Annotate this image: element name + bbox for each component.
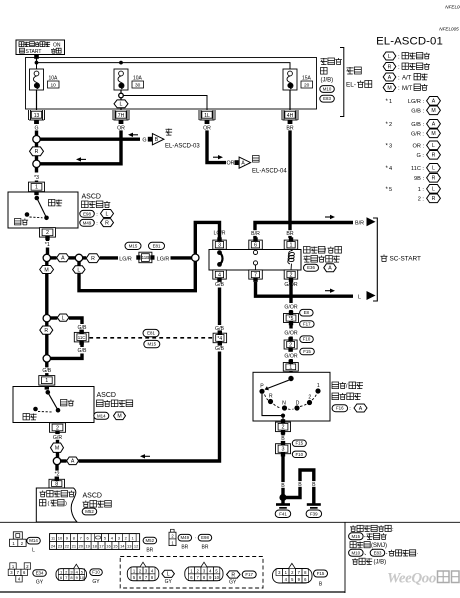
- svg-text:ON: ON: [53, 43, 61, 49]
- svg-text:EL-ASCD-01: EL-ASCD-01: [376, 35, 443, 47]
- connector ref F15 oval at connector 3: [292, 440, 306, 446]
- connector pin 6 of relay: [249, 237, 262, 249]
- svg-text:15: 15: [113, 544, 118, 549]
- svg-text:R: R: [432, 176, 436, 182]
- svg-text:G/B: G/B: [42, 368, 51, 374]
- svg-text:L: L: [62, 315, 65, 321]
- fuse box J/B outline: [26, 58, 317, 110]
- ground F39: [306, 503, 322, 517]
- connector face F15 9pin: [273, 563, 313, 583]
- svg-text:·: ·: [417, 551, 419, 557]
- svg-text:L: L: [120, 102, 123, 108]
- svg-text:13: 13: [34, 113, 40, 119]
- transistor brake switch contact depressed: [25, 212, 43, 218]
- svg-text:L: L: [358, 294, 361, 300]
- connector pin 1 of relay: [284, 237, 298, 249]
- connector ref M15 oval: [125, 242, 141, 249]
- svg-text:(J/B): (J/B): [321, 78, 334, 84]
- connector ref F17 oval bottom: [242, 571, 256, 578]
- svg-text:G :: G :: [417, 153, 425, 159]
- svg-text:2: 2: [56, 425, 59, 431]
- svg-text:A: A: [328, 266, 332, 272]
- label B/R and arrow to SC-START: [355, 217, 376, 226]
- svg-text:L: L: [254, 282, 257, 288]
- svg-text:EL-ASCD-03: EL-ASCD-03: [165, 144, 200, 150]
- svg-text:11B: 11B: [142, 255, 150, 260]
- svg-text:3: 3: [282, 447, 285, 453]
- wire G/OR segment 2: [289, 349, 292, 352]
- svg-text:ASCD: ASCD: [97, 392, 116, 399]
- svg-text:E81: E81: [147, 331, 155, 336]
- label G/B below connector 11C: [78, 348, 87, 354]
- wire G to first junction: [35, 131, 38, 136]
- connector face R-variant 10pin: [185, 562, 223, 581]
- label park/neutral position relay E36 A: [304, 247, 342, 272]
- label L and arrow to SC-START: [358, 291, 376, 300]
- legend *2 wire colors: [386, 120, 441, 138]
- wire fuse box internal bus: [35, 61, 290, 69]
- wire L branch to SC-START: [256, 282, 354, 296]
- svg-text:A: A: [359, 406, 363, 412]
- svg-text:E83: E83: [374, 550, 382, 555]
- label G/OR below relay pin 2: [284, 282, 298, 288]
- wire OR label below connector 1L: [203, 125, 211, 132]
- svg-text:E8: E8: [304, 310, 310, 315]
- wire LG/R to junction node: [171, 256, 192, 259]
- svg-text:NFEL005: NFEL005: [445, 5, 460, 10]
- svg-text:LG/R: LG/R: [157, 256, 170, 262]
- fuse 15A #20: [283, 69, 313, 90]
- connector face L-variant 8pin: [127, 562, 159, 581]
- svg-text:L: L: [167, 572, 170, 578]
- connector 3 F15/F10: [276, 441, 291, 457]
- svg-text:1: 1: [389, 99, 392, 105]
- svg-text:G/B: G/B: [215, 282, 224, 288]
- svg-text:G/B :: G/B :: [411, 122, 424, 128]
- hexagon L below fuse 30: [114, 98, 128, 110]
- wire junction to brake switch pin 1: [35, 168, 38, 184]
- svg-text:2: 2: [282, 425, 285, 431]
- svg-text:2: 2: [46, 230, 49, 236]
- svg-text:BR: BR: [202, 544, 209, 550]
- connector 13 on J/B: [29, 110, 45, 124]
- svg-text:G/OR: G/OR: [284, 304, 298, 310]
- node position 2: [307, 395, 312, 405]
- svg-text:1: 1: [289, 365, 292, 371]
- svg-text:M14: M14: [29, 538, 38, 543]
- svg-text:OR :: OR :: [413, 144, 425, 150]
- svg-text:BR: BR: [181, 544, 188, 550]
- svg-text:M: M: [117, 414, 121, 420]
- connector ref M49 oval bottom: [178, 534, 192, 550]
- svg-text:GY: GY: [165, 579, 173, 585]
- label park/neutral position switch F16 A: [332, 382, 367, 412]
- node LG/R junction circle: [192, 254, 199, 261]
- label G/OR above connector 2: [284, 331, 298, 337]
- connector pin 2 ASCD brake switch: [40, 228, 56, 240]
- connector face M49/E98: [169, 529, 176, 545]
- svg-text:21: 21: [72, 544, 77, 549]
- wire bypass back to main: [51, 342, 83, 358]
- connector pin 1 park/neutral switch: [283, 359, 298, 378]
- fuse 10A #30: [114, 69, 144, 90]
- node ground junction dot: [279, 494, 286, 501]
- svg-text:R: R: [388, 64, 392, 70]
- svg-text:EL-: EL-: [346, 82, 356, 89]
- hexagon R between G junctions: [30, 143, 44, 160]
- node junction circle below bypass: [43, 355, 50, 362]
- bracket to SC-START: [373, 218, 421, 301]
- svg-text:M: M: [44, 267, 48, 273]
- connector ref E34 oval bottom: [33, 570, 47, 586]
- svg-text:E81: E81: [153, 243, 161, 248]
- connector ref E98 oval bottom: [195, 534, 212, 550]
- connector ref E8 oval: [300, 309, 314, 316]
- svg-text:M14: M14: [97, 413, 106, 418]
- wire OR label below connector 7H: [117, 125, 125, 132]
- wire fuse2 junction to connector 1L: [123, 96, 207, 111]
- label released (brake): [49, 200, 63, 206]
- svg-text:BR: BR: [286, 231, 293, 237]
- node OR/G junction circle: [33, 160, 40, 167]
- wire fuse1 to connector 13: [36, 90, 38, 110]
- svg-text:L: L: [432, 143, 435, 149]
- svg-text:START: START: [26, 49, 42, 55]
- svg-text:E36: E36: [307, 265, 315, 270]
- wire P contact to pin 2: [262, 394, 285, 421]
- legend hexagon A = A/T models: [383, 73, 427, 81]
- svg-text:M: M: [387, 85, 391, 91]
- svg-text:30: 30: [135, 82, 141, 88]
- connector pin 1 ASCD brake switch: [29, 182, 45, 192]
- label ASCD brake switch: [80, 194, 114, 227]
- label BR above relay pin 1: [286, 230, 294, 237]
- svg-text:1L: 1L: [204, 113, 210, 119]
- svg-text:G/B: G/B: [215, 346, 224, 352]
- svg-text:(SMJ): (SMJ): [371, 543, 387, 549]
- legend *5 connector names: [386, 185, 441, 203]
- node G junction circle: [33, 136, 40, 143]
- label B below pin 2: [280, 433, 285, 443]
- connector pin 1 ASCD clutch switch: [39, 376, 55, 386]
- hexagon R direct path: [40, 322, 53, 355]
- label brake NC switch input: [40, 491, 75, 508]
- svg-text:10: 10: [51, 82, 57, 88]
- page code NFEL top right corner: [445, 5, 460, 10]
- connector ref M52 oval bottom: [143, 537, 157, 553]
- svg-text:GY: GY: [229, 580, 237, 586]
- svg-text:G/B: G/B: [215, 326, 224, 332]
- watermark WeeQoo: [387, 571, 459, 587]
- svg-text:R: R: [432, 196, 436, 202]
- svg-text:R: R: [105, 220, 109, 226]
- svg-text:L: L: [77, 267, 80, 273]
- svg-text:(: (: [48, 501, 50, 507]
- svg-text:14: 14: [120, 544, 125, 549]
- svg-text:F16: F16: [336, 406, 344, 411]
- label ASCD clutch switch M14 M: [94, 392, 133, 420]
- svg-text:A: A: [432, 122, 436, 128]
- svg-text:16: 16: [106, 544, 111, 549]
- svg-text:20: 20: [304, 82, 310, 88]
- svg-text:F17: F17: [303, 322, 311, 327]
- svg-text:24: 24: [51, 544, 56, 549]
- node position N: [282, 400, 287, 410]
- label released (clutch): [61, 400, 75, 406]
- legend hexagon M = M/T models: [383, 84, 427, 92]
- connector ref F10 oval bottom: [90, 569, 103, 585]
- svg-text:11C: 11C: [78, 335, 86, 340]
- node relay fixed contact pin 6: [253, 250, 257, 255]
- label G and page reference triangle B to EL-ASCD-03: [142, 129, 200, 150]
- wire dashed SMJ line 11C to *4: [89, 337, 213, 339]
- node junction circle L/R split: [75, 254, 82, 261]
- svg-text:SC-START: SC-START: [390, 256, 421, 263]
- connector ref E81 oval on SMJ line: [143, 329, 159, 336]
- svg-text:10A: 10A: [49, 76, 59, 82]
- label see following M15 SMJ M10 E83 J/B: [349, 525, 419, 565]
- svg-text:11C :: 11C :: [411, 166, 424, 172]
- svg-text:1 :: 1 :: [418, 187, 425, 193]
- svg-text:F15: F15: [303, 349, 311, 354]
- svg-text:OR: OR: [226, 161, 234, 167]
- svg-text:): ): [65, 501, 67, 507]
- svg-text:10: 10: [80, 575, 85, 580]
- label OR and page reference triangle A to EL-ASCD-04: [226, 156, 287, 175]
- svg-text:A: A: [71, 459, 75, 465]
- op park/neutral position switch box: [253, 372, 330, 421]
- bracket see EL-POWER: [340, 48, 372, 117]
- svg-text:F15: F15: [296, 441, 304, 446]
- svg-text:1: 1: [290, 243, 293, 249]
- label fuse box name J/B: [320, 58, 342, 102]
- svg-text:R: R: [91, 256, 95, 262]
- connector ref F17 oval: [300, 321, 315, 328]
- wire junction to ground F41: [281, 499, 284, 504]
- connector pin 2 park/neutral switch: [276, 419, 291, 434]
- op ASCD brake switch box: [8, 192, 78, 228]
- node position R: [268, 394, 273, 404]
- label *1 wire: [43, 237, 52, 255]
- legend *1 wire colors: [386, 97, 441, 115]
- svg-text:2: 2: [389, 122, 392, 128]
- label *3 wire: [32, 174, 41, 181]
- svg-text:6: 6: [254, 243, 257, 249]
- node junction circle below brake switch: [43, 254, 50, 261]
- svg-text:G/OR: G/OR: [284, 331, 298, 337]
- transistor brake switch contact released: [34, 192, 49, 221]
- wire ignition to fuse box: [34, 55, 39, 63]
- label G/B above connector 11C: [78, 325, 87, 331]
- hexagon L variant tag bottom: [162, 570, 175, 585]
- wire G feed line to EL-ASCD-03: [40, 133, 140, 140]
- svg-text:M15: M15: [129, 243, 138, 248]
- legend hexagon L = LHD models: [383, 52, 430, 60]
- wire fuse3 to connector 4H: [289, 90, 291, 110]
- svg-text:15A: 15A: [302, 76, 312, 82]
- wire G label below connector 13: [34, 125, 39, 132]
- svg-text:F10: F10: [92, 570, 100, 575]
- wire A/T branch to relay pin 4 via *4: [79, 352, 220, 462]
- svg-text:*4: *4: [217, 336, 222, 342]
- node relay fixed contact pin 7: [253, 261, 257, 270]
- svg-text:7H: 7H: [118, 113, 125, 119]
- wire bottom separator line: [0, 521, 460, 523]
- svg-text:*5: *5: [289, 316, 294, 322]
- svg-text:R: R: [44, 328, 48, 334]
- label ASCD control unit M52: [82, 493, 111, 515]
- svg-text:R: R: [269, 394, 273, 400]
- wire B down to ground junction: [280, 455, 285, 498]
- svg-text:8: 8: [55, 482, 58, 488]
- connector pin 8 ASCD control unit: [49, 477, 65, 488]
- transistor relay contact armature: [217, 250, 222, 267]
- connector ref F10 oval: [300, 336, 314, 343]
- svg-text:F15: F15: [317, 571, 325, 576]
- svg-text:E98: E98: [201, 535, 209, 540]
- svg-text:23: 23: [58, 544, 63, 549]
- svg-text:ASCD: ASCD: [83, 493, 102, 500]
- svg-text:1: 1: [317, 383, 320, 389]
- svg-text:A: A: [432, 99, 436, 105]
- svg-text:G/B :: G/B :: [411, 109, 424, 115]
- svg-text:4H: 4H: [287, 113, 294, 119]
- svg-text:LG/R: LG/R: [119, 256, 132, 262]
- connector *5 E8/F17: [284, 310, 299, 325]
- svg-text:WeeQoo: WeeQoo: [387, 571, 436, 587]
- svg-text:L: L: [32, 548, 35, 554]
- svg-text:-: -: [364, 535, 366, 541]
- svg-text:E98: E98: [83, 211, 91, 216]
- inductor relay coil: [288, 250, 295, 271]
- op park/neutral position relay box: [209, 250, 301, 271]
- svg-text:M/T: M/T: [402, 86, 413, 92]
- svg-text:B: B: [312, 482, 316, 488]
- hexagon R variant tag bottom: [227, 571, 241, 586]
- wire OR from connector 7H down and left to junction: [40, 125, 121, 164]
- svg-text:2: 2: [290, 272, 293, 278]
- svg-text:4: 4: [218, 272, 221, 278]
- connector 4H on J/B: [282, 110, 298, 124]
- label G/B above *4 connector: [215, 326, 224, 332]
- wire L-variant U path to junction: [79, 261, 195, 290]
- label depressed (clutch): [23, 414, 37, 420]
- svg-text:M52: M52: [146, 538, 155, 543]
- node position P: [259, 383, 264, 394]
- node position D: [294, 400, 299, 410]
- svg-text:G/OR: G/OR: [284, 353, 298, 359]
- hexagon L bypass via 11C: [51, 314, 83, 324]
- svg-text:D: D: [296, 400, 300, 406]
- op ASCD clutch switch box: [13, 387, 94, 423]
- page code NFEL005: [439, 27, 459, 32]
- wire B/R branch to SC-START: [255, 215, 353, 238]
- svg-text:*1: *1: [45, 242, 50, 248]
- svg-text:M49: M49: [83, 220, 92, 225]
- svg-text:10: 10: [58, 536, 63, 541]
- wire G/B from relay pin 4 to *4: [218, 279, 221, 325]
- connector pin 3 of relay: [213, 237, 227, 249]
- svg-text:B: B: [281, 483, 285, 489]
- svg-text:19: 19: [85, 544, 90, 549]
- svg-text:、: 、: [364, 551, 370, 557]
- svg-text:GY: GY: [36, 580, 44, 586]
- connector 2 F10/F15: [284, 337, 297, 352]
- connector pin 2 ASCD clutch switch: [50, 423, 66, 435]
- wire BR from connector 4H down to relay: [288, 125, 291, 238]
- connector 1L on J/B: [199, 110, 215, 124]
- svg-text:M10: M10: [323, 87, 332, 92]
- svg-text:M15: M15: [148, 342, 157, 347]
- svg-text:A: A: [61, 256, 65, 262]
- node fuse2 output junction: [119, 90, 124, 98]
- svg-text:18: 18: [92, 544, 97, 549]
- svg-text:3: 3: [218, 243, 221, 249]
- svg-text:B/R: B/R: [355, 221, 364, 227]
- wire BR label below connector 4H: [286, 125, 294, 132]
- svg-text:M: M: [431, 108, 435, 114]
- svg-text:2: 2: [308, 395, 311, 401]
- wire B loop to second ground: [285, 470, 316, 504]
- hexagon M below junction: [40, 262, 54, 315]
- wire dashed arc between positions: [265, 394, 317, 409]
- svg-text:22: 22: [65, 544, 70, 549]
- svg-text:7: 7: [254, 272, 257, 278]
- svg-text:M: M: [55, 446, 59, 452]
- svg-text:A: A: [388, 75, 392, 81]
- svg-text:12: 12: [134, 544, 139, 549]
- svg-text:1: 1: [45, 378, 48, 384]
- svg-text:L: L: [388, 54, 391, 60]
- svg-text:R: R: [231, 572, 235, 578]
- svg-text:BR: BR: [286, 125, 293, 131]
- hexagon A on row: [51, 254, 76, 262]
- svg-text:2 :: 2 :: [418, 197, 425, 203]
- svg-text:10A: 10A: [133, 76, 143, 82]
- svg-text:G/B: G/B: [78, 348, 87, 354]
- svg-text:G: G: [34, 125, 38, 131]
- wire bottom border line: [0, 591, 345, 593]
- title EL-ASCD-01: [376, 35, 443, 47]
- connector 11B SMJ: [136, 252, 154, 263]
- node junction circle at control unit input: [53, 457, 60, 464]
- svg-text:G/R: G/R: [53, 435, 62, 441]
- svg-text:F41: F41: [279, 511, 287, 516]
- connector pin 4 of relay: [213, 270, 227, 282]
- hexagon L below split: [73, 266, 85, 274]
- svg-text:ASCD: ASCD: [82, 194, 101, 201]
- connector face E34: [8, 563, 30, 582]
- wire bottom right divider: [344, 522, 346, 593]
- wire OR from connector 1L to EL-ASCD-04: [207, 125, 226, 163]
- label G/OR above connector 1: [284, 353, 298, 359]
- svg-text:M49: M49: [181, 535, 190, 540]
- svg-text:L: L: [432, 166, 435, 172]
- svg-text:F17: F17: [245, 572, 253, 577]
- legend hexagon R = RHD models: [383, 63, 430, 71]
- wire LG/R up and over to relay pin 3: [195, 222, 219, 254]
- svg-text:EL-ASCD-04: EL-ASCD-04: [252, 169, 287, 175]
- connector ref M14 oval bottom: [27, 537, 41, 553]
- svg-text:OR: OR: [203, 125, 211, 131]
- svg-text:4: 4: [389, 166, 392, 172]
- svg-text:*3: *3: [34, 175, 39, 181]
- svg-text:17: 17: [99, 544, 104, 549]
- svg-text:N: N: [282, 400, 286, 406]
- svg-text:L: L: [432, 187, 435, 193]
- label G/B below *4 connector: [215, 346, 224, 352]
- svg-text:L: L: [106, 211, 109, 217]
